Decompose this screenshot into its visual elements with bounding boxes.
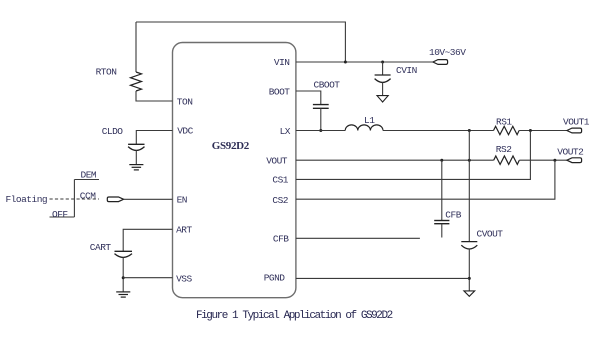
wire RS2 to VOUT2 terminal <box>519 159 567 161</box>
wire VSS node to VSS pin <box>123 277 172 279</box>
capacitor CLDO <box>128 144 144 150</box>
svg-text:PGND: PGND <box>264 273 286 284</box>
svg-text:Floating: Floating <box>6 194 48 205</box>
node RS1/CS1 junction <box>529 129 532 132</box>
node VIN/top-wire junction <box>344 61 347 64</box>
svg-text:Figure 1 Typical Application o: Figure 1 Typical Application of GS92D2 <box>196 310 393 322</box>
svg-text:CVIN: CVIN <box>396 65 417 76</box>
wire CART to VSS node and ground <box>122 257 124 291</box>
capacitor CART <box>115 251 133 257</box>
wire CBOOT to LX wire <box>320 108 322 130</box>
svg-text:ART: ART <box>176 225 192 236</box>
wire CS1 pin to RS1 right node <box>296 131 531 180</box>
svg-text:CCM: CCM <box>80 191 96 202</box>
capacitor CBOOT <box>313 105 329 109</box>
IC U1 GS92D2 body <box>173 43 296 298</box>
svg-text:CBOOT: CBOOT <box>314 80 341 91</box>
wire LX node down to CVOUT <box>468 131 470 242</box>
svg-text:CVOUT: CVOUT <box>477 229 504 240</box>
node VSS junction <box>122 276 125 279</box>
terminal VOUT1 (output tag) <box>567 128 582 133</box>
node VOUT2/CS2 junction <box>553 159 556 162</box>
node PGND junction <box>468 277 471 280</box>
capacitor CVIN <box>375 75 391 82</box>
wire VDC pin to CLDO <box>136 131 172 145</box>
wire L1 to RS1 <box>383 130 494 132</box>
wire VIN pin to input terminal <box>296 61 433 63</box>
wire CVIN to ground arrow <box>382 82 384 95</box>
wire VOUT node to CFB cap <box>441 160 443 220</box>
node VIN/CVIN junction <box>381 61 384 64</box>
svg-text:CS2: CS2 <box>272 195 288 206</box>
svg-text:10V~36V: 10V~36V <box>429 47 466 58</box>
svg-text:DEM: DEM <box>81 169 97 180</box>
svg-text:GS92D2: GS92D2 <box>212 140 250 152</box>
wire top from RTON to VIN branch <box>136 22 345 62</box>
inductor L1 <box>345 125 383 131</box>
node LX/CVOUT-branch junction <box>468 129 471 132</box>
wire CVOUT to PGND node and ground <box>468 249 470 291</box>
wire CS2 pin to VOUT2 node <box>296 160 555 199</box>
svg-text:VOUT1: VOUT1 <box>563 116 590 127</box>
resistor RTON <box>131 72 142 91</box>
EN level diagram: OFF level line <box>50 216 75 218</box>
svg-text:RTON: RTON <box>96 67 117 78</box>
svg-text:CFB: CFB <box>445 210 461 221</box>
EN level diagram: step vertical <box>73 180 75 218</box>
svg-text:VIN: VIN <box>274 57 290 68</box>
capacitor CFB <box>434 221 449 224</box>
terminal EN (input tag) <box>107 197 123 202</box>
ground (earth) below CART <box>116 292 130 297</box>
svg-text:LX: LX <box>280 126 291 137</box>
ground (arrow) below CVOUT <box>464 291 475 296</box>
ground (arrow) below CVIN <box>377 96 388 102</box>
wire RTON top lead <box>135 22 137 72</box>
svg-text:VOUT: VOUT <box>266 155 288 166</box>
node VOUT/CFB junction <box>440 159 443 162</box>
wire LX pin to L1 <box>296 130 345 132</box>
wire ART pin to CART <box>123 229 172 251</box>
wire RS1 to VOUT1 terminal <box>519 130 567 132</box>
wire CFB pin stub <box>296 237 420 239</box>
wire EN tag to EN pin <box>124 198 173 200</box>
svg-text:RS2: RS2 <box>496 144 512 155</box>
svg-text:CFB: CFB <box>273 234 289 245</box>
svg-text:CS1: CS1 <box>272 175 288 186</box>
svg-text:EN: EN <box>177 195 187 206</box>
svg-text:VDC: VDC <box>177 126 193 137</box>
node CBOOT/LX junction <box>319 129 322 132</box>
svg-text:VSS: VSS <box>176 273 192 284</box>
wire PGND pin to node <box>296 277 469 279</box>
resistor RS2 <box>494 156 520 164</box>
wire BOOT pin to CBOOT <box>296 91 321 104</box>
svg-text:CLDO: CLDO <box>102 126 124 137</box>
svg-text:RS1: RS1 <box>496 116 512 127</box>
svg-text:TON: TON <box>177 96 193 107</box>
EN level diagram: CCM dashed line <box>50 198 100 200</box>
wire RTON bottom lead to TON pin <box>136 91 173 101</box>
wire CVIN top lead <box>382 62 384 75</box>
svg-text:CART: CART <box>90 242 112 253</box>
EN level diagram: DEM level line <box>74 179 99 181</box>
svg-text:L1: L1 <box>364 115 375 126</box>
wire CLDO to ground <box>135 150 137 164</box>
resistor RS1 <box>494 126 520 134</box>
wire CFB cap bottom stub <box>441 224 443 238</box>
ground (earth) below CLDO <box>129 165 143 170</box>
capacitor CVOUT <box>461 242 477 249</box>
node VOUT/CVOUT junction <box>468 159 471 162</box>
svg-text:OFF: OFF <box>52 209 68 220</box>
terminal VOUT2 (output tag) <box>567 158 582 163</box>
svg-text:BOOT: BOOT <box>269 86 291 97</box>
terminal 10V~36V (input tag) <box>433 60 448 65</box>
svg-text:VOUT2: VOUT2 <box>557 147 584 158</box>
wire VOUT pin to RS2 <box>296 159 494 161</box>
